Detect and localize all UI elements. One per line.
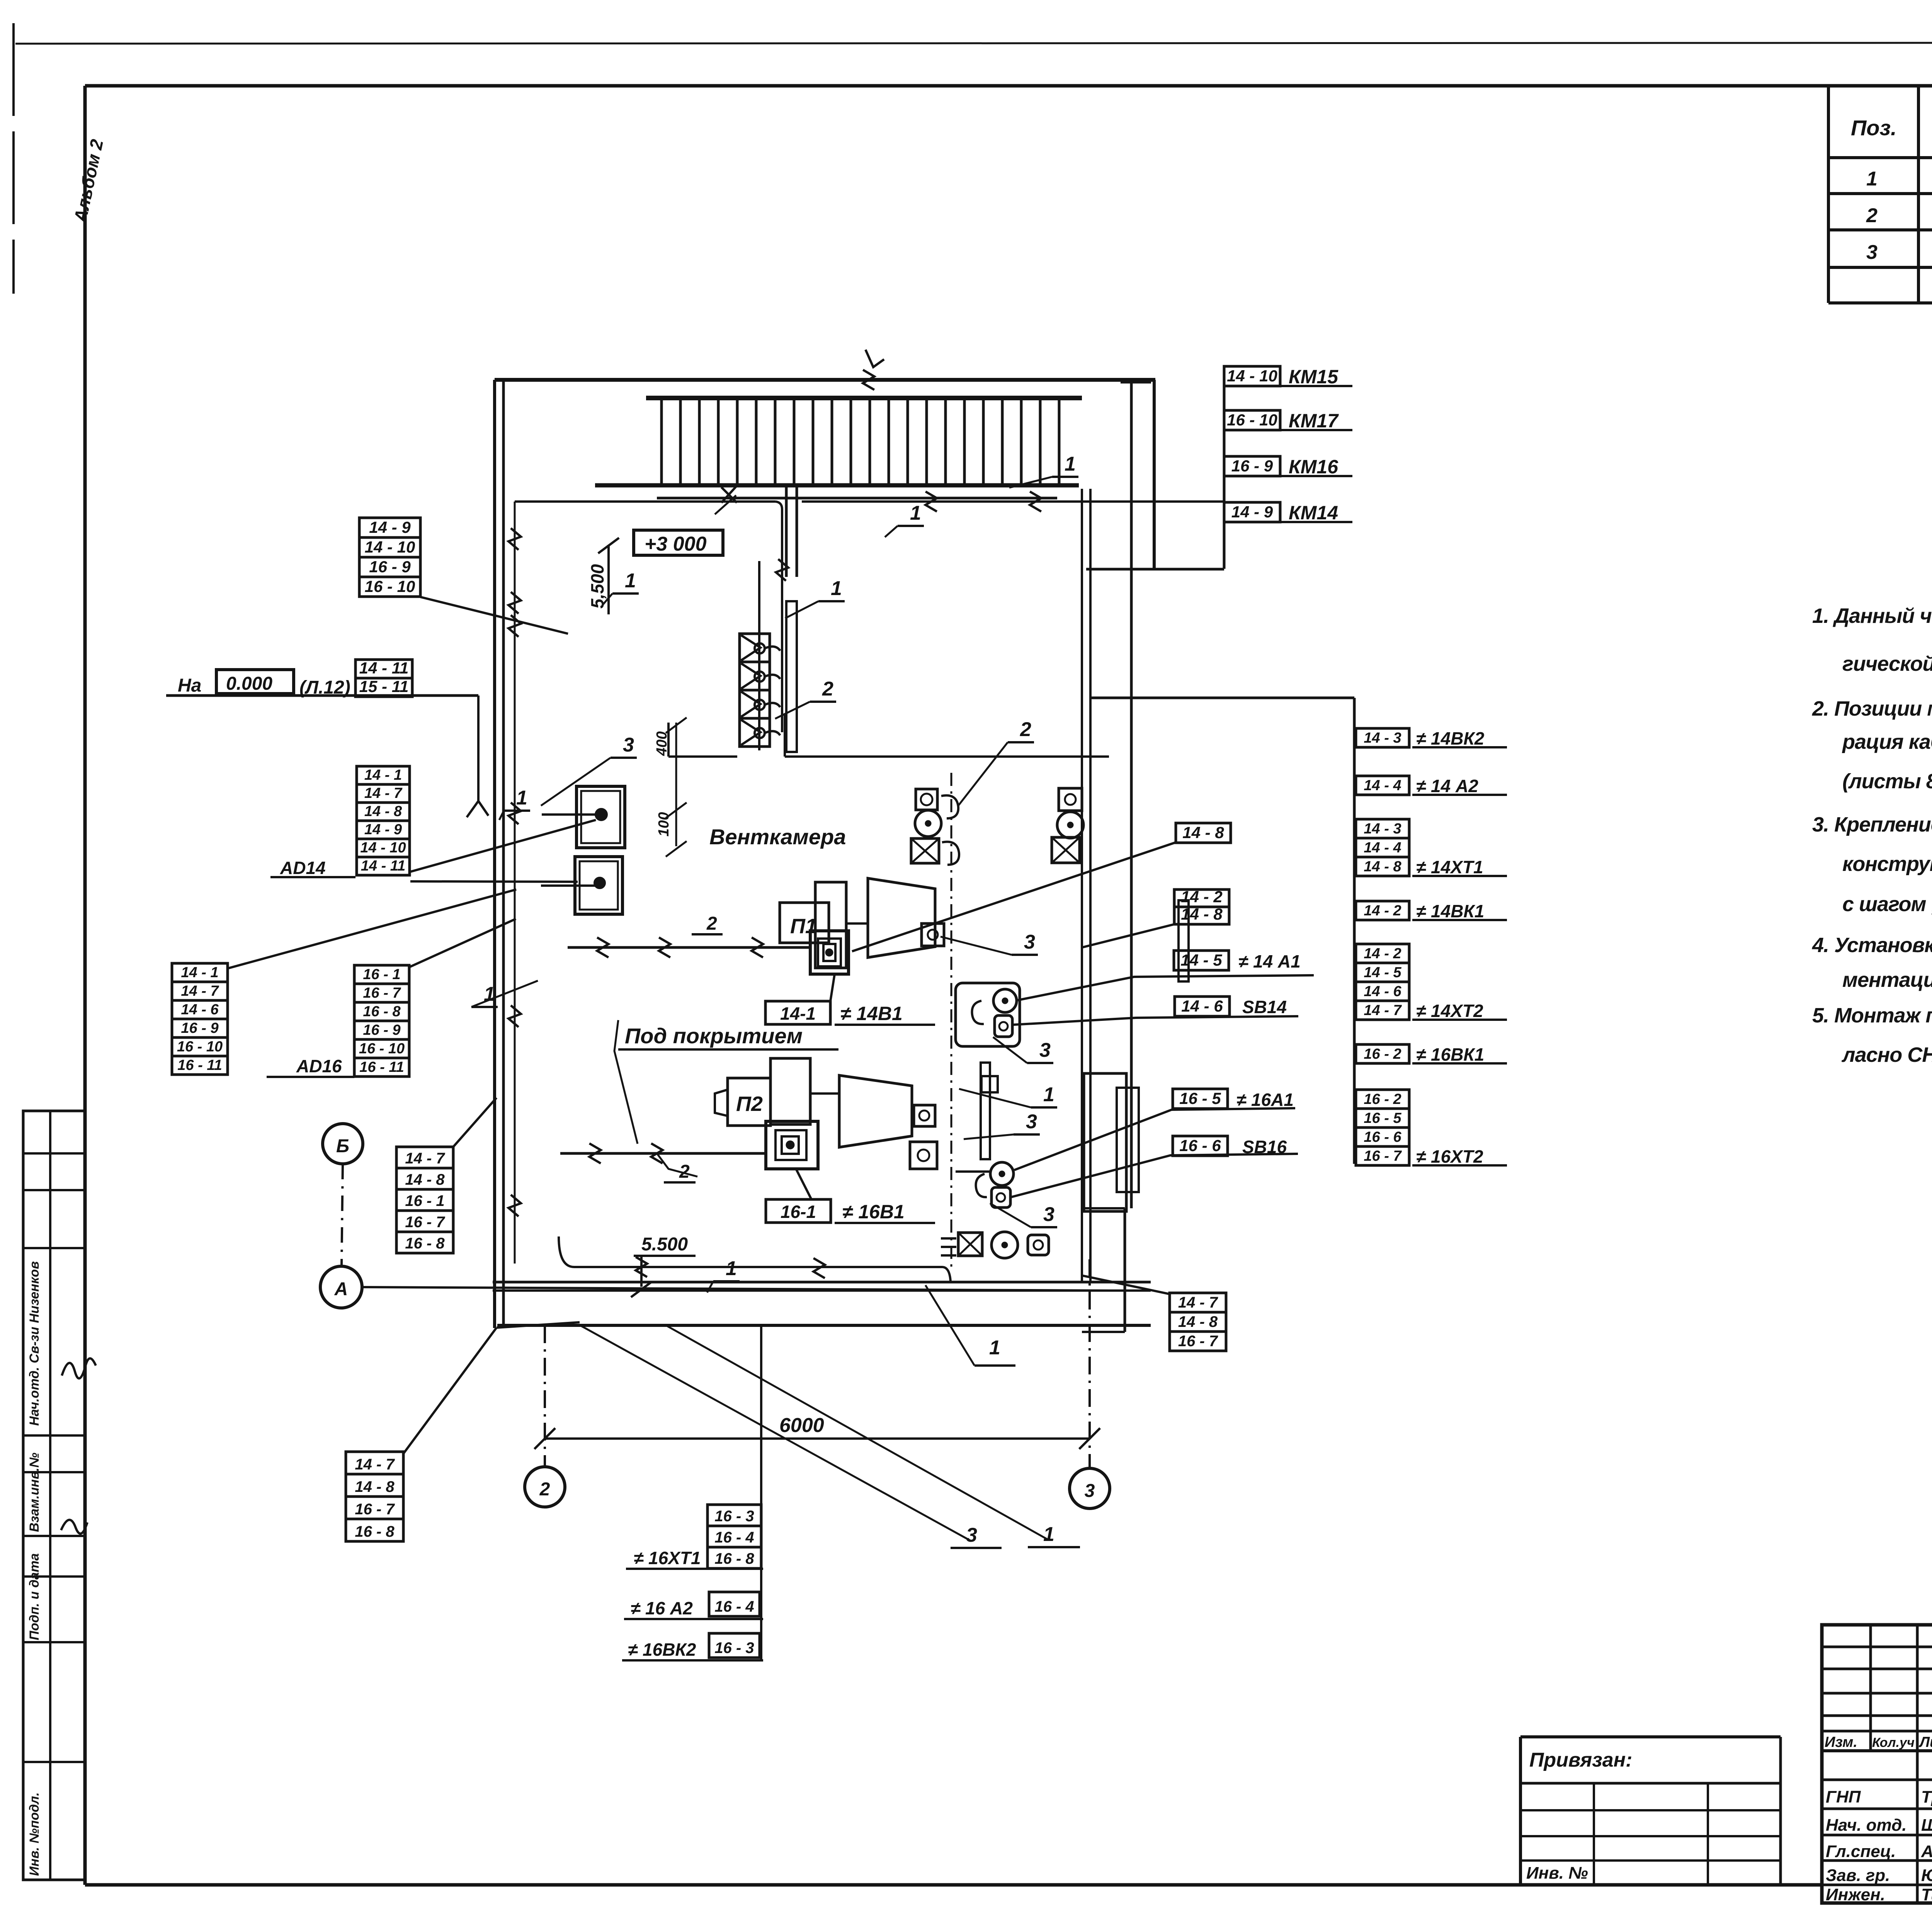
label box 16 - 6	[1173, 1136, 1228, 1156]
svg-text:14 - 10: 14 - 10	[365, 538, 415, 556]
label box 14 - 11	[355, 660, 412, 678]
svg-text:16 - 9: 16 - 9	[369, 558, 411, 576]
label box 14 - 10	[1224, 366, 1280, 386]
svg-text:16 - 10: 16 - 10	[365, 577, 415, 595]
label box 14 - 10	[359, 537, 420, 557]
svg-text:3: 3	[623, 734, 634, 756]
svg-text:4. Установка и привязка с: 4. Установка и привязка силового электро…	[1812, 934, 1932, 957]
svg-text:≠ 14ВК1: ≠ 14ВК1	[1416, 901, 1484, 921]
svg-text:3: 3	[1866, 241, 1878, 264]
label box 16 - 4	[709, 1592, 760, 1616]
stair lower line	[657, 497, 1057, 500]
svg-text:≠ 16ХТ1: ≠ 16ХТ1	[634, 1548, 701, 1568]
axis A horizontal	[362, 1287, 1109, 1291]
stair door jamb 1	[785, 485, 788, 577]
label box 14 - 2	[1356, 901, 1409, 920]
svg-text:5.500: 5.500	[641, 1234, 688, 1255]
label box 16 - 9	[354, 1021, 409, 1039]
svg-text:Инв. №: Инв. №	[1526, 1864, 1588, 1883]
frame bottom step	[1820, 1885, 1823, 1903]
svg-text:16 - 10: 16 - 10	[359, 1041, 405, 1057]
elevation +3.000	[634, 530, 723, 555]
svg-text:AD14: AD14	[280, 858, 326, 878]
P1 body	[815, 882, 846, 968]
svg-text:16 - 2: 16 - 2	[1364, 1091, 1401, 1107]
label box 16 - 8	[346, 1519, 403, 1541]
label box 16 - 8	[707, 1547, 761, 1568]
SB14 enclosure	[956, 983, 1020, 1046]
title block	[1822, 1625, 1932, 1903]
svg-text:16 - 6: 16 - 6	[1364, 1129, 1401, 1145]
svg-text:16 - 4: 16 - 4	[714, 1598, 754, 1615]
venkamera top partition left	[668, 755, 737, 758]
wall bottom line 2	[493, 1289, 1151, 1292]
svg-text:14 - 6: 14 - 6	[181, 1002, 219, 1018]
svg-text:16 - 7: 16 - 7	[363, 985, 401, 1001]
label box 14 - 5	[1174, 951, 1229, 970]
label box 16 - 9	[359, 557, 420, 577]
stair door jamb 2	[796, 485, 798, 577]
label box 16 - 4	[707, 1526, 761, 1547]
svg-text:14 - 8: 14 - 8	[364, 803, 402, 820]
leader AD14 b	[410, 881, 578, 882]
svg-text:14 - 7: 14 - 7	[364, 785, 403, 801]
frame left	[83, 86, 87, 1885]
P2 drive mid	[776, 1130, 806, 1160]
svg-text:14 - 1: 14 - 1	[181, 964, 218, 981]
corridor wall vertical	[1130, 382, 1133, 1208]
side stamp signature	[62, 1358, 96, 1378]
svg-text:14 - 6: 14 - 6	[1181, 997, 1223, 1015]
P2 label box	[728, 1078, 770, 1126]
label box 14 - 2	[1174, 889, 1229, 907]
label box 14 - 5	[1356, 963, 1409, 982]
label box 16 - 7	[346, 1497, 403, 1519]
svg-text:2: 2	[822, 678, 833, 700]
label box 14 - 7	[1170, 1293, 1226, 1312]
svg-text:конструкциям, выполнить мон: конструкциям, выполнить монтажными полос…	[1842, 852, 1932, 876]
svg-text:14 - 3: 14 - 3	[1364, 821, 1401, 837]
svg-text:КМ14: КМ14	[1289, 502, 1338, 524]
svg-text:16 - 3: 16 - 3	[714, 1639, 754, 1656]
svg-text:2: 2	[706, 913, 717, 934]
label box 14 - 7	[1356, 1001, 1409, 1020]
right riser horizontal	[1090, 697, 1354, 699]
svg-text:3. Крепление кабелей и тр: 3. Крепление кабелей и труб, прокладывае…	[1812, 813, 1932, 836]
svg-text:16 - 2: 16 - 2	[1364, 1046, 1401, 1062]
label box 14 - 1	[172, 963, 228, 982]
svg-text:16 - 7: 16 - 7	[1364, 1148, 1402, 1164]
svg-text:14 - 3: 14 - 3	[1364, 730, 1401, 746]
svg-text:Под покрытием: Под покрытием	[625, 1024, 803, 1048]
axis A bubble	[320, 1266, 362, 1308]
cable route to KM riser	[802, 500, 1224, 503]
leader stack2 to wall	[409, 919, 516, 967]
svg-text:рация кабелей, соответствуют: рация кабелей, соответствуют схемам внеш…	[1842, 730, 1932, 753]
label box 16 - 7	[354, 984, 409, 1002]
svg-text:КМ15: КМ15	[1289, 366, 1338, 388]
outer top border line	[15, 43, 1932, 44]
svg-text:≠ 14ХТ2: ≠ 14ХТ2	[1416, 1001, 1483, 1021]
svg-text:ласно СНиП3.05.07.85.: ласно СНиП3.05.07.85.	[1841, 1043, 1932, 1066]
svg-text:На: На	[178, 675, 201, 696]
svg-text:Тиханова: Тиханова	[1921, 1885, 1932, 1904]
leader B stack	[453, 1098, 497, 1147]
svg-text:1: 1	[625, 570, 636, 592]
P2 cone	[839, 1075, 912, 1147]
svg-text:Взам.инв.№: Взам.инв.№	[27, 1452, 42, 1532]
svg-text:П1: П1	[790, 915, 817, 938]
label box 16 - 2	[1356, 1044, 1409, 1063]
svg-text:14 - 8: 14 - 8	[405, 1171, 445, 1188]
svg-text:14 - 11: 14 - 11	[359, 659, 409, 677]
label box 16 - 3	[709, 1633, 760, 1658]
svg-text:14 - 2: 14 - 2	[1181, 888, 1222, 906]
svg-text:16 - 8: 16 - 8	[714, 1550, 754, 1567]
fan cluster right	[1059, 788, 1082, 811]
label box 16 - 1	[354, 965, 409, 984]
starter box c	[914, 1105, 935, 1126]
svg-text:16 - 7: 16 - 7	[355, 1501, 395, 1518]
privyazan table	[1520, 1735, 1781, 1738]
svg-text:16 - 4: 16 - 4	[714, 1529, 754, 1546]
label box 14 - 7	[357, 784, 410, 803]
label box 16 - 7	[1356, 1146, 1409, 1165]
bay edge dash line	[951, 773, 952, 1269]
wall right of stair block	[1153, 380, 1156, 570]
label box 15 - 11	[355, 678, 412, 697]
svg-text:с шагом , не более 800 мм.: с шагом , не более 800 мм.	[1842, 893, 1932, 916]
svg-text:14 - 6: 14 - 6	[1364, 983, 1401, 1000]
svg-text:16 - 3: 16 - 3	[714, 1508, 754, 1525]
svg-text:6000: 6000	[779, 1414, 824, 1437]
svg-text:1: 1	[726, 1257, 737, 1280]
riser to bottom labels	[760, 1325, 762, 1660]
label box 14 - 2	[1356, 944, 1409, 963]
cable line to P1	[568, 946, 810, 949]
stair top rail	[646, 396, 1082, 400]
svg-text:14 - 7: 14 - 7	[1178, 1294, 1218, 1311]
right riser vertical	[1353, 698, 1356, 1164]
wall cabinet 1	[577, 786, 625, 848]
wall right pair b	[1089, 489, 1092, 1282]
svg-text:14 - 7: 14 - 7	[405, 1150, 445, 1167]
svg-text:16 - 5: 16 - 5	[1179, 1089, 1221, 1107]
starter box d	[910, 1142, 937, 1169]
svg-text:Трушин: Трушин	[1921, 1787, 1932, 1806]
wall top outer	[495, 378, 1155, 382]
svg-text:1: 1	[989, 1337, 1000, 1359]
svg-text:Б: Б	[336, 1136, 349, 1156]
svg-text:1: 1	[516, 787, 527, 809]
leader bottom-left stack a	[403, 1328, 497, 1454]
svg-text:1: 1	[1043, 1523, 1054, 1546]
svg-text:Подп. и дата: Подп. и дата	[27, 1553, 42, 1640]
label box 14 - 8	[1174, 907, 1229, 924]
svg-text:≠ 14ХТ1: ≠ 14ХТ1	[1416, 857, 1483, 877]
svg-text:≠ 14В1: ≠ 14В1	[840, 1003, 903, 1024]
svg-text:16-1: 16-1	[781, 1202, 816, 1222]
svg-text:3: 3	[1085, 1481, 1095, 1501]
svg-text:16 - 5: 16 - 5	[1364, 1110, 1401, 1126]
svg-text:16 - 6: 16 - 6	[1179, 1136, 1221, 1155]
svg-text:14-1: 14-1	[780, 1003, 816, 1024]
bottom instrument cluster	[958, 1233, 982, 1256]
label box 16 - 11	[172, 1056, 228, 1075]
label box 16 - 8	[396, 1232, 453, 1253]
svg-text:14 - 7: 14 - 7	[1364, 1002, 1402, 1019]
label box 14 - 6	[172, 1000, 228, 1019]
svg-text:Кол.уч: Кол.уч	[1872, 1735, 1915, 1750]
label box 14-1	[765, 1001, 830, 1024]
svg-text:3: 3	[966, 1524, 977, 1546]
svg-text:Зав. гр.: Зав. гр.	[1826, 1866, 1890, 1885]
leader AD14 a	[410, 820, 596, 872]
fan cluster inside	[916, 789, 937, 810]
svg-text:1. Данный чертеж выполнен: 1. Данный чертеж выполнен на основании с…	[1812, 604, 1932, 628]
svg-text:16 - 1: 16 - 1	[363, 966, 400, 983]
label box 14 - 3	[1356, 728, 1409, 747]
svg-text:Поз.: Поз.	[1851, 116, 1897, 140]
label box 14 - 9	[1224, 502, 1280, 522]
label box 14 - 8	[357, 803, 410, 821]
label box 14 - 8	[396, 1168, 453, 1189]
svg-text:16 - 11: 16 - 11	[177, 1057, 222, 1073]
label box 16 - 10	[354, 1039, 409, 1058]
svg-text:400: 400	[654, 731, 670, 756]
SB16 symbols	[990, 1162, 1014, 1185]
axis 2 vertical	[544, 1325, 546, 1467]
svg-text:16 - 1: 16 - 1	[405, 1192, 444, 1209]
svg-text:0.000: 0.000	[226, 673, 272, 694]
leader from top-left stack	[420, 597, 568, 634]
label box 14 - 6	[1356, 982, 1409, 1001]
svg-text:14 - 11: 14 - 11	[361, 858, 405, 874]
thin rect near P2	[981, 1063, 990, 1159]
svg-text:Инжен.: Инжен.	[1826, 1885, 1885, 1904]
P1 cone	[868, 878, 935, 957]
svg-text:16 - 9: 16 - 9	[1231, 457, 1273, 475]
P2 body vertical	[770, 1058, 810, 1124]
svg-text:14 - 10: 14 - 10	[360, 840, 406, 856]
svg-text:1: 1	[1043, 1083, 1054, 1106]
wall left outer line 2	[502, 380, 505, 1328]
wall bottom line 1	[493, 1281, 1151, 1284]
label box 16 - 5	[1356, 1109, 1409, 1128]
inner left wall line	[514, 502, 516, 1264]
label box 16 - 2	[1356, 1090, 1409, 1109]
svg-text:1: 1	[1065, 453, 1076, 475]
svg-text:SB14: SB14	[1242, 997, 1287, 1017]
bottom cable tray	[559, 1236, 943, 1267]
svg-text:Привязан:: Привязан:	[1529, 1749, 1632, 1771]
wall bottom outer	[497, 1324, 1151, 1327]
svg-text:ментации комплекта марки Э: ментации комплекта марки Эм.	[1842, 968, 1932, 992]
dimension 6000	[545, 1437, 1090, 1440]
svg-text:Нач.отд. Св-зи Низенков: Нач.отд. Св-зи Низенков	[27, 1261, 42, 1426]
wall left outer line 1	[493, 380, 496, 1328]
P1 label box	[780, 903, 829, 943]
thin rect right corridor	[1179, 900, 1189, 981]
wall cabinet 2	[575, 857, 622, 914]
svg-text:≠ 16 А2: ≠ 16 А2	[631, 1598, 693, 1618]
label box 14 - 1	[357, 766, 410, 784]
venkamera top partition right	[785, 755, 1109, 758]
svg-text:3: 3	[1043, 1203, 1054, 1226]
svg-text:≠ 14ВК2: ≠ 14ВК2	[1416, 728, 1485, 748]
svg-text:≠ 16ВК1: ≠ 16ВК1	[1416, 1044, 1484, 1065]
svg-text:Гл.спец.: Гл.спец.	[1826, 1842, 1896, 1861]
svg-text:гической частей проекта.: гической частей проекта.	[1842, 652, 1932, 675]
svg-text:16 - 10: 16 - 10	[1227, 411, 1277, 429]
svg-text:16 - 9: 16 - 9	[181, 1020, 218, 1036]
label box 14 - 7	[346, 1452, 403, 1474]
P2 left cap	[715, 1090, 728, 1116]
svg-text:3: 3	[1026, 1111, 1037, 1133]
cable line to P2	[560, 1152, 766, 1155]
P1 drive outer	[810, 931, 849, 974]
axis line B-A	[342, 1164, 343, 1266]
bottom right nested rect outer	[1084, 1073, 1126, 1211]
label box 16 - 8	[354, 1002, 409, 1021]
svg-text:≠ 14 А2: ≠ 14 А2	[1416, 776, 1478, 796]
svg-text:14 - 9: 14 - 9	[364, 821, 402, 838]
svg-text:16 - 7: 16 - 7	[405, 1214, 445, 1231]
svg-text:16 - 9: 16 - 9	[363, 1022, 400, 1038]
bottom right nested rect inner	[1117, 1088, 1139, 1192]
svg-text:14 - 4: 14 - 4	[1364, 840, 1401, 856]
svg-text:14 - 2: 14 - 2	[1364, 946, 1401, 962]
svg-text:Изм.: Изм.	[1825, 1734, 1857, 1750]
axis 3 bubble	[1070, 1468, 1110, 1509]
misc break marks	[509, 592, 521, 614]
label box 14 - 4	[1356, 776, 1409, 795]
svg-text:14 - 2: 14 - 2	[1364, 903, 1401, 919]
wall right pair a	[1081, 489, 1083, 1282]
svg-text:ГНП: ГНП	[1826, 1787, 1861, 1806]
KM riser	[1223, 366, 1226, 569]
svg-text:16 - 8: 16 - 8	[363, 1003, 401, 1020]
svg-text:16 - 11: 16 - 11	[359, 1059, 404, 1075]
svg-text:14 - 9: 14 - 9	[1231, 503, 1273, 521]
label box 14 - 3	[1356, 819, 1409, 838]
svg-text:КМ17: КМ17	[1289, 410, 1339, 432]
svg-text:2: 2	[1866, 204, 1878, 227]
svg-text:1: 1	[831, 577, 842, 600]
svg-text:≠ 16ХТ2: ≠ 16ХТ2	[1416, 1146, 1483, 1167]
duct line vertical	[781, 509, 783, 732]
label box 16 - 7	[396, 1211, 453, 1232]
P1 drive mid	[818, 939, 841, 966]
outer left border line	[12, 23, 15, 294]
svg-text:1: 1	[910, 502, 921, 524]
starter box a	[922, 923, 944, 946]
svg-text:≠ 16А1: ≠ 16А1	[1236, 1090, 1294, 1110]
label box 14 - 9	[359, 518, 420, 537]
frame top	[85, 84, 1932, 88]
label box 14 - 8	[1170, 1312, 1226, 1332]
inner room boundary	[515, 500, 776, 503]
svg-text:14 - 10: 14 - 10	[1227, 367, 1277, 385]
svg-text:Лист: Лист	[1918, 1734, 1932, 1750]
label box 14 - 4	[1356, 838, 1409, 857]
svg-text:16 - 10: 16 - 10	[177, 1039, 223, 1055]
svg-text:16 - 7: 16 - 7	[1178, 1333, 1218, 1350]
label box 16 - 1	[396, 1189, 453, 1211]
label box 14 - 8	[1176, 823, 1231, 843]
svg-text:5. Монтаж приборов и сре: 5. Монтаж приборов и средств автоматизац…	[1812, 1004, 1932, 1027]
frame bottom right span	[1822, 1901, 1932, 1905]
label box 14 - 8	[1356, 857, 1409, 876]
label box 16 - 6	[1356, 1128, 1409, 1146]
svg-text:(листы 8...10).: (листы 8...10).	[1842, 770, 1932, 793]
label box 14 - 8	[346, 1474, 403, 1497]
svg-text:14 - 7: 14 - 7	[181, 983, 219, 999]
label box 16-1	[766, 1199, 831, 1223]
svg-text:3: 3	[1039, 1039, 1051, 1061]
svg-text:+3 000: +3 000	[645, 533, 707, 555]
label box 14 - 11	[357, 857, 410, 875]
svg-text:14 - 8: 14 - 8	[1364, 859, 1401, 875]
svg-text:14 - 8: 14 - 8	[355, 1478, 395, 1495]
label box 16 - 10	[1224, 410, 1280, 430]
svg-text:Венткамера: Венткамера	[709, 825, 846, 849]
P2 drive outer	[766, 1121, 818, 1169]
label box 16 - 7	[1170, 1332, 1226, 1351]
label box 16 - 10	[359, 577, 420, 597]
thin duct rect upper	[786, 601, 797, 752]
svg-text:16 - 8: 16 - 8	[355, 1523, 395, 1540]
svg-text:≠ 16ВК2: ≠ 16ВК2	[628, 1639, 696, 1660]
label box 16 - 11	[354, 1058, 409, 1077]
label box 16 - 9	[1224, 456, 1280, 476]
svg-text:16 - 8: 16 - 8	[405, 1235, 445, 1252]
svg-text:Шунский: Шунский	[1921, 1816, 1932, 1835]
svg-text:3: 3	[1024, 931, 1035, 953]
label box 16 - 3	[707, 1505, 761, 1526]
small square atop thin rect near P2	[981, 1076, 998, 1092]
label box 14 - 7	[172, 982, 228, 1000]
svg-text:Юрикова: Юрикова	[1921, 1866, 1932, 1885]
svg-text:14 - 1: 14 - 1	[364, 767, 402, 783]
svg-text:14 - 4: 14 - 4	[1364, 777, 1401, 794]
label box 16 - 10	[172, 1037, 228, 1056]
P1 drive inner	[823, 944, 835, 961]
svg-text:14 - 5: 14 - 5	[1180, 951, 1222, 969]
svg-text:15 - 11: 15 - 11	[359, 677, 409, 696]
label box 16 - 9	[172, 1019, 228, 1037]
svg-text:14 - 7: 14 - 7	[355, 1456, 395, 1473]
axis 3 vertical	[1088, 1259, 1091, 1468]
svg-text:14 - 5: 14 - 5	[1364, 964, 1401, 981]
svg-text:14 - 8: 14 - 8	[1181, 905, 1223, 923]
svg-text:≠ 16В1: ≠ 16В1	[842, 1201, 905, 1223]
left side stamp table	[23, 1111, 85, 1880]
label box 14 - 10	[357, 839, 410, 857]
frame bottom left span	[85, 1883, 1822, 1887]
svg-text:AD16: AD16	[296, 1056, 342, 1076]
label box 14 - 9	[357, 821, 410, 839]
axis 2 bubble	[525, 1467, 565, 1507]
wall bottom right vertical	[1124, 1208, 1126, 1332]
svg-text:≠ 14 А1: ≠ 14 А1	[1238, 951, 1301, 971]
svg-text:А: А	[334, 1279, 348, 1299]
wall bottom right horiz	[1082, 1207, 1125, 1209]
svg-text:14 - 8: 14 - 8	[1178, 1313, 1218, 1330]
stair bottom rail	[657, 483, 1079, 488]
svg-text:Афонино: Афонино	[1921, 1842, 1932, 1861]
svg-text:2: 2	[539, 1479, 550, 1500]
